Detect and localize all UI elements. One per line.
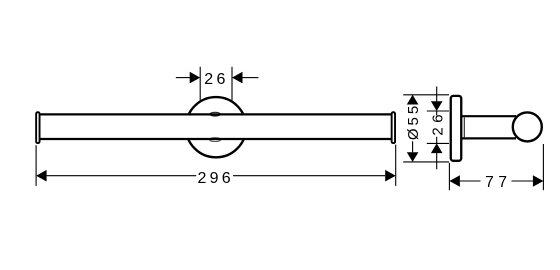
svg-text:26: 26 <box>430 110 447 136</box>
svg-text:Ø55: Ø55 <box>405 103 422 140</box>
svg-text:296: 296 <box>198 170 234 187</box>
svg-text:26: 26 <box>204 71 228 88</box>
svg-text:77: 77 <box>485 174 511 191</box>
